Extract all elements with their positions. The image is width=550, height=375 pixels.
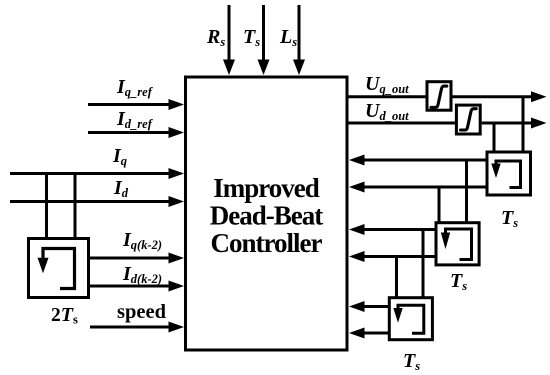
wire Uq tap to delay Ts1 xyxy=(522,97,525,153)
block title text xyxy=(210,173,323,258)
wire feedback fb2 xyxy=(364,186,487,189)
wire fb1 tap to delay Ts2 xyxy=(465,160,468,223)
saturation block SAT2 xyxy=(456,105,480,134)
arrowhead speed xyxy=(169,322,185,333)
wire Rs input xyxy=(228,5,231,61)
svg-text:Dead-Beat: Dead-Beat xyxy=(210,201,323,231)
arrowhead Id(k-2) xyxy=(169,281,185,292)
arrowhead Uq_out xyxy=(531,91,547,102)
wire feedback fb1 xyxy=(364,159,487,162)
arrowhead fb2 xyxy=(349,182,365,193)
svg-text:Improved: Improved xyxy=(213,173,319,203)
arrowhead fb1 xyxy=(349,155,365,166)
delay block Ts1 xyxy=(487,152,531,195)
delay block Ts3 xyxy=(389,298,432,340)
wire Iq tap to 2Ts delay xyxy=(45,172,48,238)
saturation block SAT1 xyxy=(427,82,451,111)
wire feedback fb5 xyxy=(364,305,389,308)
wire speed xyxy=(90,326,169,329)
wire Uq_out to output xyxy=(453,95,533,98)
delay icon Ts3 xyxy=(398,305,424,333)
wire Id tap to 2Ts delay xyxy=(74,172,77,238)
arrowhead fb4 xyxy=(349,251,365,262)
delay block 2Ts xyxy=(29,239,89,298)
wire fb2 tap to delay Ts2 xyxy=(438,187,441,223)
wire feedback fb3 xyxy=(364,228,436,231)
wire Iq xyxy=(10,172,169,175)
wire Uq_out to saturation xyxy=(348,95,426,98)
arrowhead Iq(k-2) xyxy=(169,253,185,264)
wire fb4 tap to delay Ts3 xyxy=(395,257,398,298)
wire Id(k-2) xyxy=(88,285,169,288)
delay block Ts2 xyxy=(436,223,479,265)
wire Id_ref xyxy=(88,131,169,134)
arrowhead Id_ref xyxy=(169,127,185,138)
wire Ud_out to output xyxy=(482,122,532,125)
delay icon 2Ts xyxy=(43,249,75,289)
delay icon Ts2 xyxy=(446,229,472,260)
arrowhead fb6 xyxy=(349,328,365,339)
arrowhead Ts xyxy=(258,60,270,76)
saturation icon SAT2 xyxy=(461,109,477,130)
wire Ts input xyxy=(262,5,265,61)
wire Ud_out to saturation xyxy=(348,122,456,125)
arrowhead fb5 xyxy=(349,301,365,312)
arrowhead Ls xyxy=(293,60,305,76)
wire Ud tap to delay Ts1 xyxy=(493,123,496,153)
wire Iq(k-2) xyxy=(88,257,169,260)
wire feedback fb6 xyxy=(364,332,389,335)
arrowhead Iq xyxy=(169,168,185,179)
arrowhead Id xyxy=(169,196,185,207)
wire feedback fb4 xyxy=(364,255,436,258)
arrowhead Ud_out xyxy=(531,118,547,129)
wire Id xyxy=(10,200,169,203)
arrowhead Rs xyxy=(223,60,235,76)
arrowhead fb3 xyxy=(349,224,365,235)
wire Ls input xyxy=(298,5,301,61)
arrowhead Iq_ref xyxy=(169,99,185,110)
wire fb3 tap to delay Ts3 xyxy=(422,230,425,298)
wire Iq_ref xyxy=(88,103,169,106)
delay icon Ts1 xyxy=(496,161,521,188)
svg-text:Controller: Controller xyxy=(211,228,323,258)
controller block U1 xyxy=(186,77,348,350)
svg-text:speed: speed xyxy=(117,301,167,323)
saturation icon SAT1 xyxy=(431,86,447,107)
